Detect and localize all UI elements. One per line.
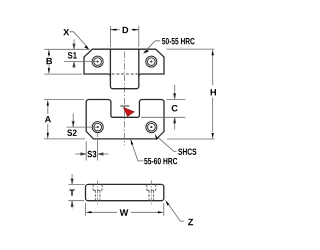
label Z text [188,219,193,225]
top extension line (B/S1) [44,48,90,50]
SHCS leader [158,137,177,151]
upper hole left: counterbore circles [92,56,103,67]
S3 outside arrows [75,153,86,155]
lower hole left: counterbore circles [92,122,103,133]
label H text [211,89,216,95]
A dimension line [47,106,49,134]
label S2 text [67,129,76,136]
center cross tick [120,105,129,107]
dimension B line and arrows [48,56,50,69]
label B text [46,58,52,64]
50-55 HRC leader [144,41,160,53]
side view hole right centerline [150,180,152,204]
Z leader [167,203,184,222]
S1 bottom outside arrow [73,62,75,68]
red pointer arrow [123,108,134,117]
tongue root relief right [139,74,141,77]
side view hole right hidden lines [147,184,156,200]
hidden edge behind tongue [112,73,139,75]
label X text [63,29,69,35]
label C text [172,105,178,112]
C outside arrows [174,85,176,99]
A extension bottom / lower plate bottom ext [44,138,85,140]
label S3 text [87,151,96,158]
side view hole left centerline [97,180,99,204]
H dimension line [212,55,214,132]
lower hole right: counterbore circles [146,122,157,133]
S3 extension lines [86,141,97,161]
A extension top [44,99,84,101]
label S1 text [68,52,77,59]
S1 hole centerline extension [64,61,98,63]
T extension lines [68,184,84,200]
lower block outline [86,100,164,139]
S2 hole centerline extension [67,126,98,128]
bottom extension line (B) [44,73,82,75]
S1 top outside arrow [73,39,75,49]
note 50-55 HRC text [162,38,195,44]
upper hole right: counterbore circles [146,56,157,67]
55-60 HRC leader [132,144,144,161]
centerline tail below lower-left hole [97,133,99,141]
X leader [70,32,88,48]
H extension top [166,48,214,50]
side view outline [86,184,164,200]
label D text [123,27,129,33]
tongue left edge [110,49,138,88]
W dimension line [92,211,158,213]
centerline main vertical [124,52,126,146]
label T text [69,189,74,195]
note 55-60 HRC text [144,158,177,164]
label W text [120,209,129,215]
tongue root relief left [108,74,110,77]
T outside arrows [71,174,73,184]
label A text [45,116,51,122]
C extension lines [141,99,185,117]
side view hole left hidden lines [93,184,102,200]
dimension D line and arrows [110,29,138,31]
upper block outline [84,49,164,74]
S2 inside down arrow [72,114,74,128]
dimension D extension lines [110,26,138,47]
H extension bottom [167,138,215,140]
note SHCS text [178,148,196,154]
W extension lines [86,203,164,216]
